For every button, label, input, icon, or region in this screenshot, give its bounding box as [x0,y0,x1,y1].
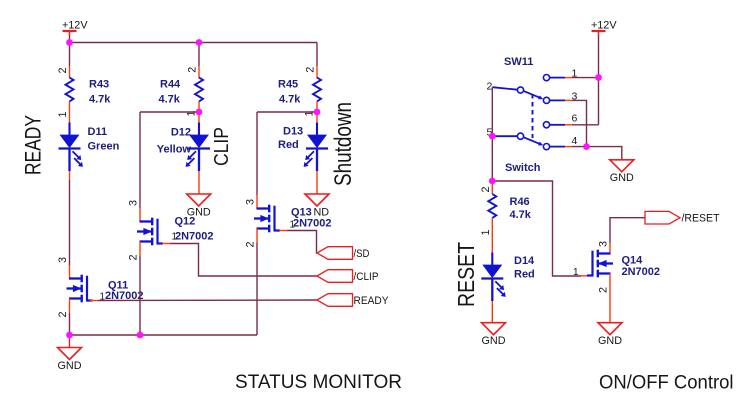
label Q14 part 2N7002 [622,266,661,278]
svg-text:2: 2 [57,311,69,317]
svg-text:2N7002: 2N7002 [293,218,332,230]
wire Q11 source to gnd rail [69,313,71,335]
svg-text:Shutdown: Shutdown [330,102,357,186]
pin 1 stub R45 [316,102,318,113]
label Q11 [108,280,128,292]
pin label 3 of Q12 [128,200,140,206]
switch SW11 gang link (dashed) [532,94,534,138]
label D12 Yellow [157,127,192,156]
switch SW11 pole A contact [517,87,523,93]
svg-text:1: 1 [172,232,177,243]
pin label 1 of R46 [480,229,492,235]
wire D11 cathode [69,171,71,265]
LED D11 [59,123,83,172]
wire D14 cathode to gnd [491,301,493,323]
pin 2 stub R44 [198,66,200,78]
switch SW11 pole B contact [517,133,523,139]
junction node pin1 +12V [595,74,602,81]
wire +12V stem to rail [69,36,71,43]
net label RESET (rotated) [453,242,479,307]
wire SW11 pin1 [549,77,598,79]
wire gnd stem [69,335,71,348]
pin label 4 of SW11 [572,135,578,147]
junction node gnd rail at Q12 [137,332,144,339]
pin label 1 of Q13 [290,220,295,231]
pin label 1 of Q14 [573,267,579,278]
pin 2 stub Q13 [256,229,258,244]
label D14 Red [514,255,535,281]
pin 1 stub R44 [198,102,200,113]
label Q11 part 2N7002 [105,290,144,302]
pin label 3 of Q13 [245,199,257,205]
svg-text:+12V: +12V [591,19,617,31]
svg-text:D11: D11 [88,126,108,138]
label SW11 [504,56,533,68]
ground symbol Q14 [598,323,622,347]
svg-text:D12: D12 [171,127,191,139]
switch SW11 pole A lead [492,87,517,90]
title STATUS MONITOR [235,371,402,393]
net label READY (rotated) [21,115,46,175]
pin label 3 of Q14 [598,241,610,247]
svg-text:1: 1 [480,229,492,235]
wire SW11 pin4 to gnd [549,147,622,160]
wire rail corner to R45 [316,43,318,67]
wire R44 junction to Q12 drain [140,112,199,208]
transistor Q13 [254,205,280,233]
svg-text:2: 2 [57,67,69,73]
svg-text:/SD: /SD [354,248,370,260]
wire Q13 gate to /SD [279,231,317,254]
pin stub D12 anode [198,112,200,123]
label R44 value [159,79,182,106]
resistor R44 [195,78,203,102]
label R46 value [510,196,532,221]
junction node +12V rail at R44 [196,39,203,46]
junction node R45-D13-Q13 [314,109,321,116]
port /CLIP [317,270,379,283]
wire SW11 pin6 [549,124,598,126]
wire rail to R43 [69,43,71,67]
resistor R46 [488,194,496,218]
svg-text:2: 2 [480,186,492,192]
pin label 2 of SW11 [487,81,493,93]
pin label 2 of R46 [480,186,492,192]
pin label 3 of SW11 [572,91,578,103]
label Q13 [291,207,312,219]
svg-text:R43: R43 [89,79,109,91]
wire poles to R46 [491,136,493,181]
pin label 2 of R45 [305,67,317,73]
pin label 1 of R45 [304,110,316,116]
resistor R45 [313,78,321,102]
switch SW11 throw 6 contact [543,122,549,128]
LED D13 [304,123,328,172]
pin 1 stub R43 [69,102,71,124]
svg-text:D14: D14 [514,255,535,267]
junction node +12V rail at R43 [66,39,73,46]
svg-text:3: 3 [128,200,140,206]
resistor R43 [66,78,74,102]
svg-text:4.7k: 4.7k [510,209,532,221]
svg-text:READY: READY [21,115,46,175]
label D13 Red [278,126,303,152]
pin 3 stub Q14 [609,243,611,254]
wire SW11 pin3 [549,100,586,146]
wire +12V to switch pin1 [598,36,600,78]
switch SW11 arm B [524,137,543,145]
svg-text:/CLIP: /CLIP [354,271,379,283]
pin label 2 of Q11 [57,311,69,317]
switch SW11 pole B lead [492,135,517,137]
net label Shutdown (rotated) [330,102,357,186]
svg-text:1: 1 [57,111,69,117]
svg-text:2N7002: 2N7002 [622,266,661,278]
wire /RESET to Q14 drain [610,218,645,243]
pin 2 stub R43 [69,66,71,78]
svg-text:2: 2 [128,254,140,260]
switch SW11 throw 1 contact [543,75,549,81]
transistor Q12 [137,218,163,246]
pin label 6 of SW11 [572,113,578,125]
svg-text:SW11: SW11 [504,56,533,68]
switch SW11 throw 4 contact [543,144,549,150]
label Q13 part 2N7002 [293,218,332,230]
pin 3 stub Q13 [256,195,258,209]
pin label 3 of Q11 [57,257,69,263]
wire SW11 poles bus [491,87,493,136]
port /SD [317,247,370,260]
pin label 2 of R43 [57,67,69,73]
wire ground rail [70,334,258,336]
junction node gnd rail at Q11 [66,332,73,339]
svg-text:1: 1 [573,267,579,278]
svg-text:R45: R45 [278,79,298,91]
pin 2 stub Q12 [139,242,141,257]
svg-text:2: 2 [305,67,317,73]
LED D14 [481,253,505,302]
wire +12V down to pin6 [598,78,600,125]
wire Q12 source to gnd rail [139,256,141,335]
label Q14 [622,255,644,267]
svg-text:Red: Red [514,269,535,281]
wire +12V top rail [70,42,318,44]
label Q12 [175,216,196,228]
svg-text:ND: ND [314,206,330,218]
ground symbol SW11 [610,160,634,184]
svg-text:2: 2 [245,241,257,247]
svg-text:Switch: Switch [505,162,541,174]
svg-text:Red: Red [278,139,299,151]
pin label 2 of R44 [187,67,199,73]
switch SW11 throw 3 contact [543,97,549,103]
pin label 2 of Q13 [245,241,257,247]
net label CLIP (rotated) [211,127,233,166]
transistor Q14 [587,250,613,278]
label Switch [505,162,541,174]
label Q12 part 2N7002 [175,231,214,243]
port /RESET [645,211,720,224]
pin 2 stub R46 [491,181,493,194]
svg-text:3: 3 [57,257,69,263]
LED D12 [186,123,210,172]
wire R46 to D14 [491,228,493,253]
svg-text:4: 4 [572,135,578,147]
svg-text:Q12: Q12 [175,216,196,228]
switch SW11 arm A [524,91,543,99]
pin label 1 of Q12 [172,232,177,243]
pin 2 stub R45 [316,66,318,78]
svg-text:D13: D13 [283,126,303,138]
svg-text:Q14: Q14 [622,255,644,267]
wire Q14 source to gnd [609,286,611,323]
ground symbol D12 [187,194,211,218]
svg-text:STATUS MONITOR: STATUS MONITOR [235,371,402,393]
wire D13 cathode to gnd [316,171,318,194]
junction node pole B [489,133,496,140]
svg-text:READY: READY [354,295,389,307]
wire Q12 gate to /CLIP [162,244,317,277]
label R43 value [89,79,111,106]
pin stub D13 anode [316,112,318,123]
pin 2 stub Q14 [609,274,611,287]
wire R45 junction to Q13 drain [257,112,317,195]
svg-text:RESET: RESET [453,242,479,307]
svg-text:3: 3 [245,199,257,205]
wire Q11 gate to READY port [90,299,317,302]
pin label 1 of SW11 [572,68,578,80]
pin label 2 of Q12 [128,254,140,260]
wire D12 cathode to gnd [198,171,200,194]
wire Q13 source to gnd rail [256,243,258,335]
svg-text:2: 2 [598,287,610,293]
wire rail to R44 [198,43,200,67]
power symbol +12V (right) [591,19,617,36]
svg-text:ON/OFF Control: ON/OFF Control [599,372,734,394]
pin label 1 of R43 [57,111,69,117]
svg-text:R46: R46 [510,196,530,208]
svg-text:GND: GND [598,335,622,347]
power symbol +12V (left) [62,19,88,36]
svg-text:Green: Green [88,141,120,153]
svg-text:R44: R44 [160,79,181,91]
svg-text:2: 2 [187,67,199,73]
svg-text:GND: GND [482,335,506,347]
pin label 1 of R44 [186,110,198,116]
pin label 2 of Q14 [598,287,610,293]
port READY [317,294,389,307]
svg-text:CLIP: CLIP [211,127,233,166]
pin label 1 of Q11 [100,292,105,303]
svg-text:4.7k: 4.7k [279,94,301,106]
junction node pin3-pin4 [583,143,590,150]
svg-text:/RESET: /RESET [682,213,721,225]
svg-text:2N7002: 2N7002 [175,231,214,243]
junction node R44-D12-Q12 [196,109,203,116]
transistor Q11 [67,275,93,303]
svg-text:3: 3 [598,241,610,247]
svg-text:GND: GND [610,172,634,184]
junction node R46 top [489,178,496,185]
pin label 5 of SW11 [487,127,493,139]
svg-text:6: 6 [572,113,578,125]
svg-text:GND: GND [58,360,82,372]
pin 3 stub Q11 [69,265,71,279]
pin 1 stub R46 [491,218,493,228]
ground symbol main [58,348,82,372]
wire gate feed [492,181,587,276]
label D11 Green [88,126,120,153]
pin 3 stub Q12 [139,208,141,222]
svg-text:4.7k: 4.7k [159,94,181,106]
ground symbol D13 [305,194,329,218]
ground symbol D14 [482,323,506,347]
title ON/OFF Control [599,372,734,394]
label R45 value [278,79,301,106]
svg-text:Yellow: Yellow [157,144,192,156]
svg-text:1: 1 [290,220,295,231]
svg-text:4.7k: 4.7k [89,94,111,106]
pin 2 stub Q11 [69,299,71,314]
svg-text:+12V: +12V [62,19,88,31]
